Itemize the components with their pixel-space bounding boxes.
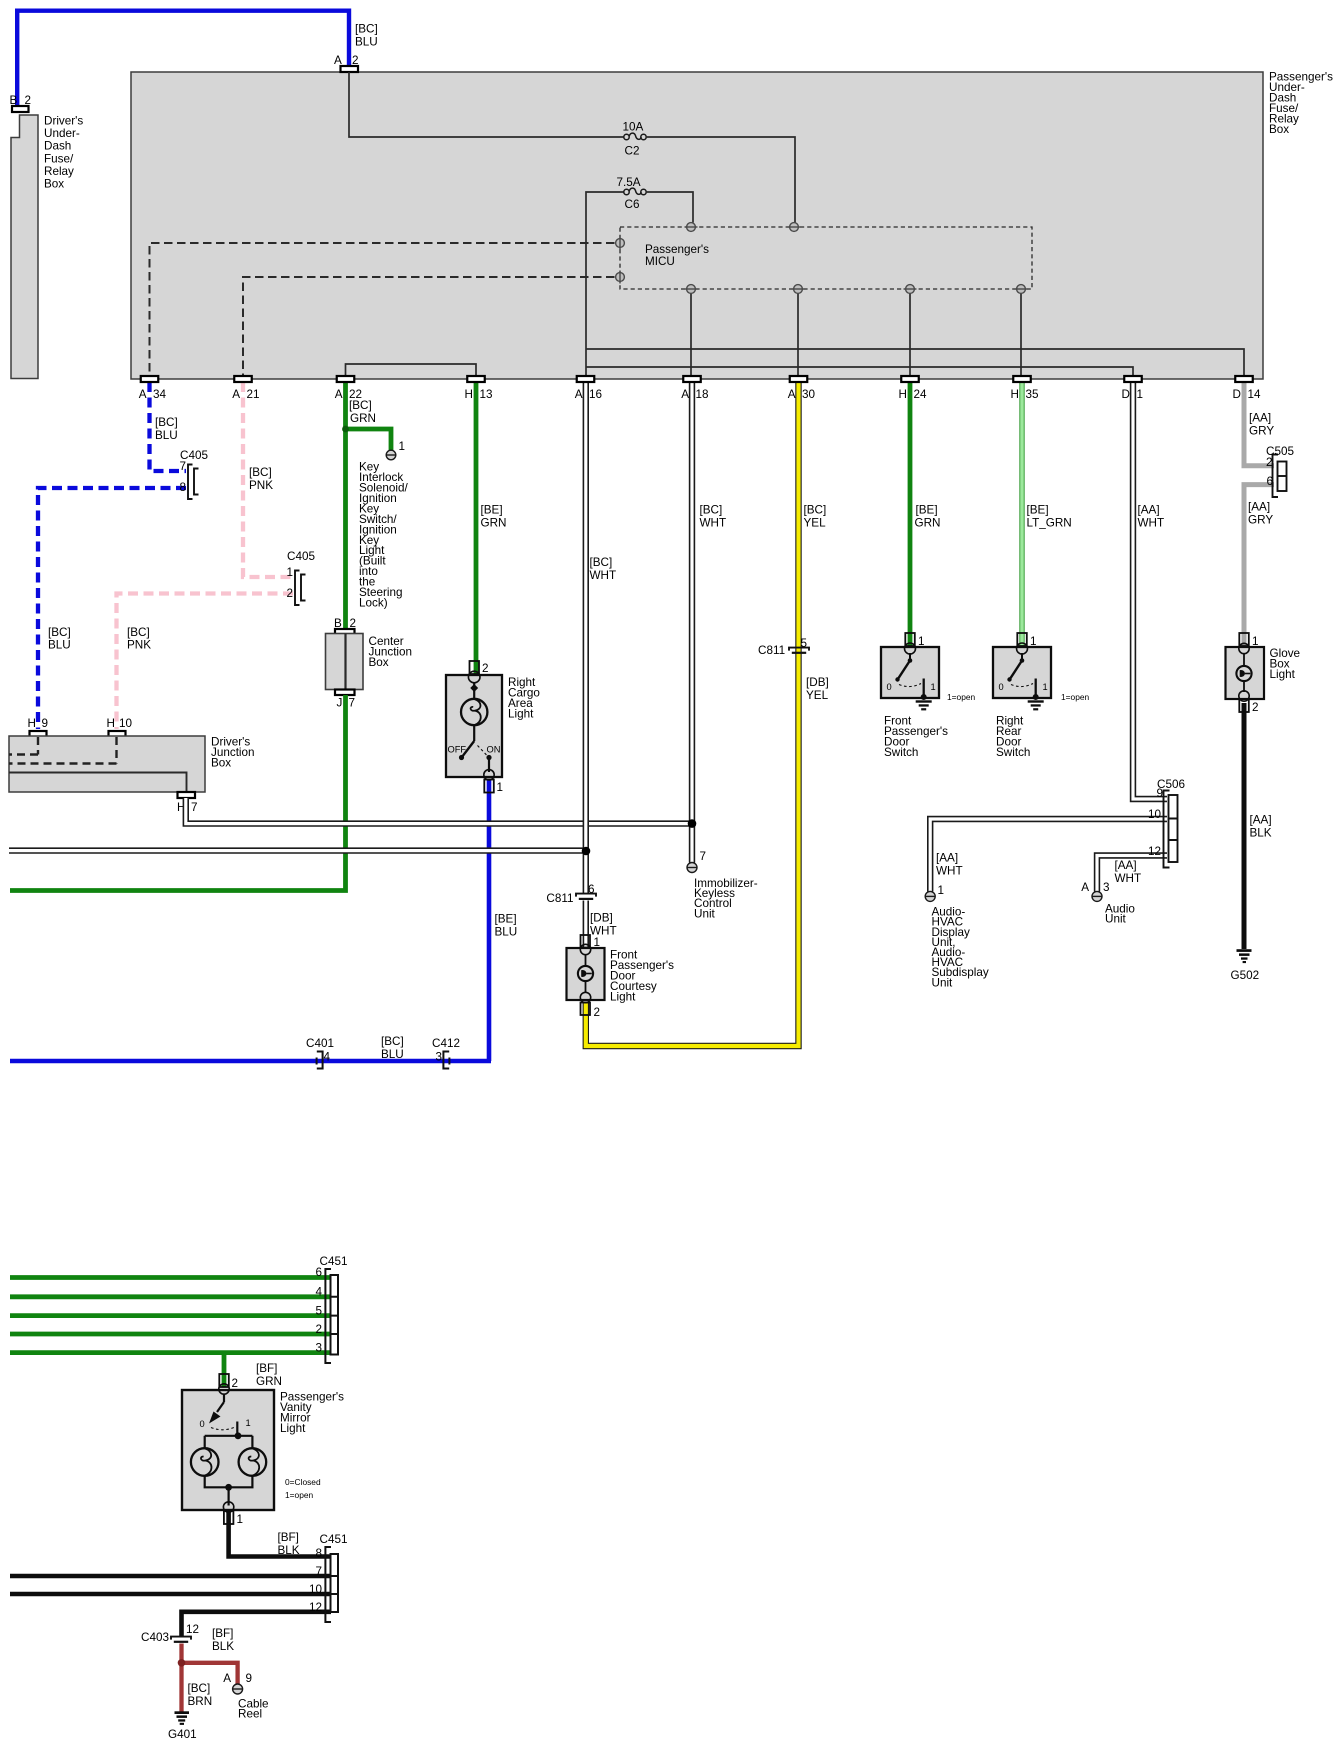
- MICU pin bottom 2: [792, 285, 805, 294]
- vanity bulbs parallel circuit: [191, 1432, 321, 1505]
- svg-text:10: 10: [1148, 808, 1162, 821]
- Driver's Under-Dash Fuse/Relay Box: [11, 115, 83, 379]
- connector A 22: [335, 376, 362, 401]
- glove pin 2: [1239, 691, 1259, 714]
- svg-text:0: 0: [200, 1419, 205, 1429]
- svg-text:22: 22: [349, 388, 362, 401]
- svg-text:[BC]PNK: [BC]PNK: [249, 466, 273, 492]
- vanity pin 1: [223, 1502, 243, 1526]
- wire [AA] GRY from D14 to C505: [1244, 382, 1274, 466]
- svg-text:C451: C451: [320, 1533, 348, 1546]
- svg-text:24: 24: [914, 388, 928, 401]
- svg-text:[BC]YEL: [BC]YEL: [804, 504, 827, 530]
- svg-text:[BE]BLU: [BE]BLU: [495, 913, 518, 939]
- svg-text:H: H: [465, 388, 473, 401]
- connector H 9: [28, 717, 49, 737]
- junction dot A16: [582, 847, 591, 856]
- cargo switch OFF/ON: [448, 741, 501, 772]
- svg-text:2: 2: [594, 1006, 601, 1019]
- terminal 1 Key Interlock: [386, 440, 405, 460]
- wire [AA] BLK from glove box light to G502: [1244, 703, 1272, 949]
- wire [BE] LT_GRN from H35 to right rear door switch: [1022, 382, 1072, 646]
- wire [AA] WHT from C506 pin 10 to audio-hvac display: [930, 819, 1167, 892]
- svg-text:[BE]GRN: [BE]GRN: [915, 504, 941, 530]
- svg-text:2: 2: [286, 587, 293, 600]
- wire [BC] BLU from B2 to A2: [17, 11, 378, 106]
- svg-text:C6: C6: [625, 198, 640, 211]
- svg-text:0: 0: [887, 682, 892, 692]
- svg-text:4: 4: [315, 1286, 322, 1299]
- terminal A 3 Audio Unit: [1081, 881, 1135, 926]
- wire [BE] BLU from cargo light to C412: [489, 779, 517, 1061]
- svg-text:ON: ON: [487, 745, 501, 755]
- svg-text:[AA]GRY: [AA]GRY: [1249, 412, 1274, 438]
- svg-text:1: 1: [1252, 635, 1259, 648]
- wire A22 to H13 internal loop: [346, 364, 477, 376]
- svg-text:[BC]PNK: [BC]PNK: [127, 626, 151, 652]
- connector A 2: [334, 54, 359, 72]
- terminal A 9 Cable Reel: [223, 1672, 268, 1721]
- cargo pin 2: [468, 661, 488, 683]
- svg-text:A: A: [223, 1672, 231, 1685]
- svg-text:[DB]YEL: [DB]YEL: [806, 676, 829, 702]
- svg-text:2: 2: [232, 1377, 239, 1390]
- glove pin 1: [1239, 633, 1259, 654]
- svg-text:C2: C2: [625, 145, 640, 158]
- ground G502: [1231, 949, 1260, 982]
- svg-text:6: 6: [588, 883, 595, 896]
- svg-text:[BC]WHT: [BC]WHT: [700, 504, 727, 530]
- connector C401 pin 4: [306, 1037, 334, 1069]
- wire [DB] WHT from C811 to courtesy light: [586, 901, 617, 948]
- svg-text:C811: C811: [758, 644, 785, 657]
- connector A 16: [575, 376, 602, 401]
- svg-text:C412: C412: [432, 1037, 460, 1050]
- svg-text:1: 1: [1030, 635, 1037, 648]
- vanity switch: [200, 1394, 251, 1434]
- svg-text:1=open: 1=open: [285, 1490, 314, 1500]
- svg-text:C451: C451: [320, 1255, 348, 1268]
- Driver's Junction Box: [9, 736, 255, 793]
- wire GRN from J7 to left edge: [10, 695, 346, 891]
- wire GRN C451 pin 2: [10, 1332, 331, 1337]
- wire [BC] BLU horizontal bottom: [10, 1035, 491, 1061]
- dashed wire from H9 inside junction box: [9, 737, 38, 755]
- wire GRN C451 pin 5: [10, 1313, 331, 1318]
- MICU pin left 2: [616, 271, 625, 284]
- svg-text:35: 35: [1026, 388, 1040, 401]
- svg-text:1: 1: [237, 1513, 244, 1526]
- svg-text:A: A: [681, 388, 689, 401]
- svg-text:8: 8: [179, 481, 186, 494]
- front switch pin 1: [905, 633, 925, 654]
- svg-text:1: 1: [1043, 682, 1048, 692]
- cargo pin 1: [484, 770, 503, 794]
- svg-text:9: 9: [42, 717, 49, 730]
- svg-text:30: 30: [802, 388, 816, 401]
- svg-text:B: B: [334, 617, 342, 630]
- svg-text:5: 5: [315, 1305, 322, 1318]
- wire GRN C451 pin 4: [10, 1294, 331, 1299]
- svg-text:[AA]GRY: [AA]GRY: [1248, 501, 1273, 527]
- wire [BC] PNK dashed from A21 to C405: [243, 382, 293, 577]
- svg-text:9: 9: [246, 1672, 253, 1685]
- svg-text:D: D: [1122, 388, 1130, 401]
- Right Rear Door Switch: [993, 647, 1051, 759]
- wire branch to key interlock: [346, 429, 392, 450]
- connector C412 pin 3: [432, 1037, 460, 1069]
- svg-text:6: 6: [315, 1266, 322, 1279]
- svg-text:[BF]BLK: [BF]BLK: [212, 1627, 234, 1653]
- connector A 21: [232, 376, 259, 401]
- dashed wire MICU to A34: [150, 243, 615, 376]
- wire [BC] WHT from A16 down to C811: [586, 382, 616, 894]
- svg-text:C401: C401: [306, 1037, 334, 1050]
- svg-text:A: A: [232, 388, 240, 401]
- svg-text:2: 2: [482, 662, 489, 675]
- Passenger's MICU dashed box: [620, 227, 1032, 289]
- svg-text:10: 10: [309, 1583, 323, 1596]
- svg-text:1=open: 1=open: [947, 692, 976, 702]
- courtesy pin 2: [580, 992, 600, 1019]
- wire [BC] BLU dashed from C405 to H9: [38, 488, 186, 729]
- wire [BE] GRN from H24 to front door switch: [910, 382, 940, 646]
- svg-text:H: H: [1011, 388, 1019, 401]
- svg-text:[BC]BRN: [BC]BRN: [188, 1682, 213, 1708]
- wire [BC] BLU dashed from A34 to C405: [150, 382, 187, 471]
- glove bulb: [1236, 654, 1251, 692]
- svg-text:7: 7: [700, 850, 707, 863]
- svg-text:1: 1: [918, 635, 925, 648]
- Front Passenger's Door Courtesy Light: [567, 948, 675, 1003]
- connector H 24: [899, 376, 927, 401]
- terminal 1 Audio-HVAC Display Unit: [925, 884, 989, 989]
- svg-text:2: 2: [352, 54, 359, 67]
- svg-text:8: 8: [315, 1547, 322, 1560]
- wire [AA] WHT from D1 to C506 pin 9: [1133, 382, 1167, 799]
- svg-text:[BC]BLU: [BC]BLU: [155, 416, 178, 442]
- svg-text:A: A: [1081, 881, 1089, 894]
- svg-text:[AA]BLK: [AA]BLK: [1250, 814, 1272, 840]
- wire [BC] WHT from A18 to immobilizer: [692, 382, 726, 863]
- svg-text:H: H: [899, 388, 907, 401]
- svg-text:1: 1: [594, 936, 601, 949]
- svg-text:A: A: [788, 388, 796, 401]
- dashed wire MICU to A21: [243, 277, 615, 376]
- terminal 7 Immobilizer-Keyless Control Unit: [687, 850, 758, 920]
- right switch pin 1: [1017, 633, 1037, 654]
- cargo bulb: [461, 683, 487, 741]
- svg-text:3: 3: [315, 1342, 322, 1355]
- svg-text:21: 21: [247, 388, 260, 401]
- svg-text:12: 12: [309, 1601, 322, 1614]
- svg-text:D: D: [1233, 388, 1241, 401]
- ground below front door switch: [916, 700, 932, 710]
- wire WHT from H7 to A18 junction: [186, 798, 692, 824]
- connector B 2 Center Junction Box: [334, 617, 356, 635]
- wire MICU pin to H35: [1020, 293, 1022, 376]
- svg-text:18: 18: [696, 388, 709, 401]
- svg-text:1: 1: [399, 440, 406, 453]
- junction dot A18: [688, 819, 697, 828]
- MICU pin bottom 3: [904, 285, 917, 294]
- connector D 1: [1122, 376, 1143, 401]
- vanity pin 2: [219, 1374, 238, 1394]
- wire from A2 to fuse C2: [349, 72, 624, 137]
- svg-text:OFF: OFF: [448, 745, 467, 755]
- svg-text:B: B: [10, 94, 18, 107]
- connector H 7: [177, 792, 198, 814]
- svg-text:0=Closed: 0=Closed: [285, 1477, 321, 1487]
- fuse 7.5A C6: [617, 176, 647, 211]
- svg-text:C403: C403: [141, 1631, 169, 1644]
- svg-text:A: A: [139, 388, 147, 401]
- svg-text:1: 1: [497, 781, 504, 794]
- svg-text:[BC]BLU: [BC]BLU: [355, 23, 378, 49]
- svg-text:[DB]WHT: [DB]WHT: [590, 912, 617, 938]
- connector D 14: [1233, 376, 1261, 401]
- svg-text:6: 6: [1267, 475, 1274, 488]
- svg-text:13: 13: [480, 388, 493, 401]
- wire MICU pin to A30: [797, 293, 799, 376]
- connector C405 pins 7/8: [179, 449, 208, 499]
- connector C451 pins 6/4/5/2/3: [315, 1255, 347, 1363]
- connector C811 pin 6: [546, 883, 596, 905]
- svg-text:0: 0: [999, 682, 1004, 692]
- svg-text:A: A: [334, 54, 342, 67]
- junction dot brown: [178, 1659, 186, 1667]
- wire WHT horizontal to A16 junction: [9, 847, 586, 853]
- svg-text:2: 2: [315, 1323, 322, 1336]
- svg-text:A: A: [575, 388, 583, 401]
- MICU pin top 1: [685, 223, 698, 232]
- svg-text:10A: 10A: [623, 121, 644, 134]
- wire BLK C451 pin 10: [10, 1592, 331, 1597]
- wire [AA] GRY from C505 to glove box light: [1244, 485, 1274, 646]
- svg-text:1: 1: [938, 884, 945, 897]
- svg-text:[BF]BLK: [BF]BLK: [278, 1531, 300, 1557]
- svg-text:3: 3: [1103, 881, 1110, 894]
- wire [BC] BRN from C403 to G401: [182, 1644, 213, 1712]
- svg-text:1: 1: [1137, 388, 1144, 401]
- svg-text:J: J: [337, 697, 343, 710]
- wire A16/D1/D14 distribution: [586, 349, 1244, 376]
- wire [BF] GRN C451 pin 3 to vanity light: [10, 1353, 331, 1388]
- connector A 18: [681, 376, 708, 401]
- MICU pin bottom 1: [685, 285, 698, 294]
- svg-text:2: 2: [1252, 701, 1259, 714]
- wire [BF] BLK from vanity pin 1 to C451 pin 8: [229, 1512, 331, 1557]
- courtesy pin 1: [580, 935, 600, 955]
- wire from fuse C2 to MICU pin: [646, 137, 795, 223]
- svg-text:2: 2: [350, 617, 357, 630]
- right switch mechanism: [999, 653, 1090, 702]
- ground G401: [168, 1711, 197, 1741]
- Passenger's Under-Dash Fuse/Relay Box: [131, 71, 1333, 380]
- wire from fuse C6 to MICU pin: [646, 192, 693, 223]
- wire 7.5A feed: [586, 192, 624, 376]
- svg-text:1=open: 1=open: [1061, 692, 1090, 702]
- fuse 10A C2: [623, 121, 647, 158]
- svg-text:10: 10: [119, 717, 133, 730]
- svg-text:2: 2: [25, 94, 32, 107]
- svg-text:16: 16: [589, 388, 602, 401]
- courtesy bulb: [578, 954, 593, 993]
- wire [BC] PNK dashed from C405 to H10: [117, 594, 294, 730]
- dashed wire from H10 inside junction box: [9, 737, 117, 764]
- svg-text:1: 1: [931, 682, 936, 692]
- front switch mechanism: [887, 653, 976, 702]
- svg-text:5: 5: [801, 637, 808, 650]
- wire BRN branch to cable reel: [182, 1663, 238, 1684]
- wire BLK C451 pin 7: [10, 1574, 331, 1579]
- Center Junction Box: [326, 634, 413, 690]
- wire MICU pin to H24: [909, 293, 911, 376]
- connector J 7: [335, 690, 355, 710]
- svg-text:12: 12: [1148, 845, 1161, 858]
- svg-text:7: 7: [349, 697, 356, 710]
- svg-text:4: 4: [324, 1051, 331, 1064]
- svg-text:1: 1: [246, 1418, 251, 1428]
- connector C403 pin 12: [141, 1623, 199, 1644]
- connector H 35: [1011, 376, 1039, 401]
- svg-text:3: 3: [435, 1051, 442, 1064]
- MICU pin left 1: [616, 237, 625, 250]
- connector C451 pins 8/7/10/12: [309, 1533, 347, 1622]
- svg-text:9: 9: [1156, 787, 1163, 800]
- Passenger's Vanity Mirror Light: [182, 1390, 344, 1510]
- connector A 30: [788, 376, 816, 401]
- svg-text:7.5A: 7.5A: [617, 176, 641, 189]
- connector C506: [1148, 778, 1185, 868]
- svg-text:2: 2: [1266, 456, 1273, 469]
- svg-text:H: H: [28, 717, 36, 730]
- MICU pin bottom 4: [1015, 285, 1028, 294]
- svg-text:14: 14: [1248, 388, 1262, 401]
- svg-text:C811: C811: [546, 892, 573, 905]
- svg-text:G401: G401: [168, 1728, 197, 1741]
- wire MICU pin to A18: [690, 293, 692, 376]
- connector C811 pin 5: [758, 637, 809, 657]
- svg-text:[BC]BLU: [BC]BLU: [381, 1035, 404, 1061]
- wire [DB] YEL / [BC] YEL from courtesy light to A30: [586, 382, 829, 1046]
- Front Passenger's Door Switch: [881, 647, 948, 759]
- svg-text:1: 1: [286, 566, 293, 579]
- wire [BE] GRN from H13 to cargo light: [476, 382, 506, 674]
- ground below right rear door switch: [1028, 700, 1044, 710]
- MICU pin top 2: [788, 223, 801, 232]
- svg-text:[BC]BLU: [BC]BLU: [48, 626, 71, 652]
- connector A 34: [139, 376, 167, 401]
- svg-text:C405: C405: [287, 550, 315, 563]
- wire GRN C451 pin 6: [10, 1275, 331, 1280]
- svg-text:7: 7: [315, 1565, 322, 1578]
- wire [AA] WHT from C506 pin 12 to audio unit: [1097, 856, 1167, 892]
- connector H 13: [465, 376, 493, 401]
- junction dot green: [342, 426, 349, 433]
- svg-text:G502: G502: [1231, 969, 1260, 982]
- connector C405 pins 1/2: [286, 550, 315, 605]
- svg-text:H: H: [107, 717, 115, 730]
- wire [BC] GRN from A22 to Center Junction Box: [346, 382, 376, 633]
- wire inside junction box to H7: [9, 773, 187, 793]
- svg-text:[BE]GRN: [BE]GRN: [481, 504, 507, 530]
- wire [BF] BLK C451 pin 12 to C403: [182, 1612, 332, 1653]
- svg-text:7: 7: [179, 460, 186, 473]
- svg-text:34: 34: [153, 388, 167, 401]
- connector H 10: [107, 717, 133, 737]
- connector B 2: [10, 94, 32, 112]
- svg-text:12: 12: [186, 1623, 199, 1636]
- Right Cargo Area Light: [446, 675, 540, 777]
- connector C505 pins 2/6: [1266, 445, 1294, 497]
- svg-text:[BC]WHT: [BC]WHT: [590, 556, 617, 582]
- svg-text:7: 7: [191, 801, 198, 814]
- svg-text:A: A: [335, 388, 343, 401]
- Glove Box Light: [1226, 647, 1301, 699]
